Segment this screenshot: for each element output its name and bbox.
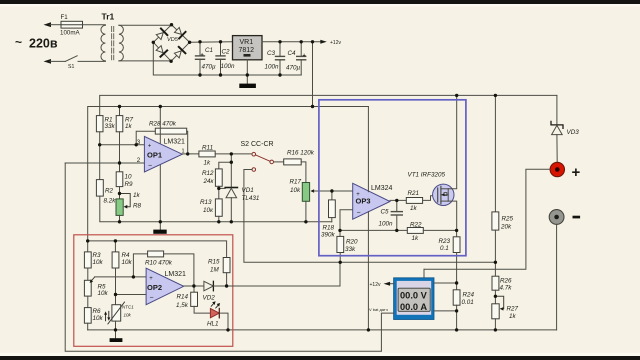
svg-text:C1: C1 (205, 47, 213, 54)
LED HL1 (210, 308, 219, 317)
svg-text:1k: 1k (204, 160, 212, 167)
svg-text:+12v: +12v (330, 40, 341, 46)
resistor R10 (133, 251, 194, 286)
resistor R23 (453, 230, 460, 283)
svg-text:−: − (357, 210, 361, 217)
switch S2 lever (256, 155, 271, 161)
wire bridge left node down to ground rail (153, 42, 301, 75)
svg-text:+: + (572, 164, 581, 181)
resistor R4 (112, 241, 119, 268)
svg-text:R16 120k: R16 120k (287, 150, 315, 157)
svg-text:R13: R13 (200, 199, 212, 206)
svg-text:00.0 V: 00.0 V (400, 291, 428, 301)
resistor R12 (215, 169, 222, 186)
resistor R13 (215, 199, 222, 216)
svg-text:VR1: VR1 (240, 39, 254, 46)
wire S2 common to R16 (274, 161, 284, 163)
wire S2 contact B down and across (244, 170, 496, 263)
svg-text:10k: 10k (122, 259, 133, 266)
wire meter +12v stub (390, 283, 394, 285)
VR1 tab mark (244, 54, 251, 57)
wire R8 bottom to ground rail (119, 215, 121, 221)
svg-text:NTC1: NTC1 (122, 305, 134, 310)
blue group box (319, 100, 466, 256)
svg-text:100n: 100n (379, 221, 394, 228)
terminal minus (549, 210, 564, 225)
capacitor C3 (276, 42, 285, 75)
wire R11 to S2 (215, 153, 252, 155)
resistor R24 (453, 283, 460, 330)
svg-text:R23: R23 (439, 238, 451, 245)
resistor R14 (191, 286, 211, 313)
potentiometer R17 (302, 183, 314, 202)
svg-text:R26: R26 (500, 278, 512, 285)
svg-text:VD3: VD3 (567, 129, 580, 136)
potentiometer R8 (116, 194, 130, 216)
wire R7 bottom to pin2 node and R9 (119, 132, 121, 172)
svg-text:100mA: 100mA (60, 30, 80, 37)
svg-text:V bat датч: V bat датч (369, 307, 388, 312)
svg-text:470µ: 470µ (286, 65, 301, 72)
svg-text:4.7k: 4.7k (500, 285, 513, 292)
svg-text:R11: R11 (202, 145, 213, 152)
diode VD2 (204, 281, 214, 291)
LED arrows HL1 (211, 301, 220, 308)
wire red box top supply row (88, 241, 227, 258)
wire meter right bottom to R24 bottom (434, 310, 457, 312)
svg-text:VD1: VD1 (242, 187, 254, 194)
svg-text:R18: R18 (323, 225, 335, 232)
svg-text:C4: C4 (288, 50, 297, 57)
wire R17 wiper to OP3 plus input (314, 190, 353, 192)
thermistor NTC1 (108, 302, 125, 324)
svg-text:1k: 1k (133, 192, 141, 199)
letterbox bars (0, 0, 640, 4)
svg-text:1,5k: 1,5k (176, 302, 189, 309)
op-amp OP1 LM321 (144, 136, 182, 172)
mains left arrow top (44, 22, 52, 27)
wire OP3 output (390, 199, 406, 201)
wire VR1 ground pin (246, 60, 248, 84)
resistor R25 (492, 95, 499, 276)
wire VD2 to R15 node and mode line (213, 262, 340, 286)
resistor R6 (84, 308, 91, 324)
wire OP1 pin 2 input (65, 162, 144, 164)
wire R12 R13 junction (218, 186, 220, 199)
svg-text:220в: 220в (29, 37, 58, 51)
wire R17 bottom to ground rail (305, 201, 307, 222)
wire secondary bottom to bridge bottom node (119, 60, 171, 62)
svg-text:~: ~ (15, 35, 22, 49)
wire R26 to R27 (494, 290, 496, 304)
svg-text:+: + (303, 53, 306, 59)
svg-text:+: + (148, 144, 152, 150)
wire R4 bottom to minus input node (115, 268, 117, 305)
svg-text:33k: 33k (105, 123, 116, 130)
switch S2 common contact (270, 160, 274, 164)
svg-text:R21: R21 (408, 190, 420, 197)
svg-text:C5: C5 (381, 209, 390, 216)
resistor R28 feedback (136, 128, 188, 154)
svg-text:R17: R17 (290, 179, 302, 186)
resistor R20 (337, 230, 344, 262)
svg-text:R12: R12 (202, 170, 214, 177)
svg-text:R15: R15 (208, 259, 220, 266)
ground symbol below OP1 (153, 230, 166, 234)
resistor R3 (84, 241, 91, 268)
svg-text:390k: 390k (321, 232, 336, 239)
bridge rectifier VD5 diamond (153, 25, 189, 62)
svg-text:0.01: 0.01 (462, 299, 474, 306)
svg-text:+: + (201, 53, 204, 59)
wire TL431 ref (219, 187, 225, 189)
svg-text:TL431: TL431 (242, 195, 260, 202)
wire R3 to R5 (87, 268, 89, 280)
temperature arrows at NTC1 (104, 311, 110, 321)
wire fuse to transformer primary top (83, 24, 106, 26)
wire OP1 output (182, 153, 199, 155)
svg-text:+: + (356, 192, 360, 198)
wire R5 to R6 (87, 296, 89, 308)
svg-text:100n: 100n (221, 63, 236, 70)
wire R22 to source node (423, 229, 456, 231)
svg-text:R9: R9 (125, 181, 134, 188)
svg-text:00.0 A: 00.0 A (400, 302, 427, 312)
resistor R7 (116, 107, 123, 132)
svg-text:R14: R14 (177, 294, 189, 301)
svg-text:−: − (150, 295, 154, 302)
svg-text:VD5: VD5 (167, 37, 179, 43)
svg-text:R2: R2 (105, 188, 114, 195)
wire arrow to fuse F1 (50, 24, 61, 26)
svg-text:7812: 7812 (239, 47, 255, 54)
wire R21 to VT1 gate (423, 196, 438, 201)
wire OP3 power top pin (367, 107, 369, 192)
svg-text:LM324: LM324 (371, 185, 393, 192)
svg-text:R8: R8 (133, 203, 142, 210)
bridge diode bottom-right (173, 47, 185, 59)
ground symbol under VR1 (239, 84, 256, 88)
regulator VR1 7812 (233, 36, 263, 60)
svg-text:1k: 1k (412, 235, 420, 242)
resistor R21 (406, 198, 422, 204)
capacitor C5 (391, 200, 402, 230)
svg-text:R10 470k: R10 470k (145, 260, 173, 267)
bridge diode top-left (155, 29, 167, 41)
svg-text:VD2: VD2 (203, 295, 216, 302)
wire OP3 power bottom pin to bottom line (367, 212, 369, 330)
svg-text:R20: R20 (346, 239, 358, 246)
svg-text:S2 CC-CR: S2 CC-CR (241, 141, 274, 148)
svg-text:33k: 33k (345, 246, 356, 253)
op-amp OP2 LM321 (146, 268, 184, 305)
wire VT1 drain to raw rail (448, 95, 457, 188)
svg-text:10k: 10k (93, 315, 104, 322)
wire +12v drop to opamp rail (312, 42, 314, 107)
svg-text:Tr1: Tr1 (102, 12, 115, 22)
wire OP2 output (184, 285, 204, 287)
wire R1 bottom to pin3 node and R2 (99, 132, 101, 180)
svg-text:1k: 1k (410, 205, 418, 212)
wire +12v opamp rail (horizontal B) (88, 107, 369, 241)
svg-text:C2: C2 (222, 49, 231, 56)
wire output negative bottom line (88, 329, 557, 331)
wire VR1 output rail +12v (262, 41, 321, 43)
svg-text:1: 1 (182, 148, 185, 154)
transistor VT1 IRF3205 (433, 184, 454, 205)
svg-text:C3: C3 (267, 50, 276, 57)
svg-text:10k: 10k (124, 313, 132, 318)
wire bridge right node to VR1 input (190, 41, 233, 44)
capacitor C4 (297, 42, 306, 75)
+12v arrow top (320, 40, 327, 44)
svg-text:10к: 10к (203, 207, 214, 214)
zener VD3 (551, 95, 563, 162)
svg-text:470µ: 470µ (202, 64, 217, 71)
resistor R15 (223, 258, 230, 287)
svg-text:+: + (149, 276, 153, 282)
wire voltage sense meter to plus terminal (424, 169, 550, 277)
wire branch to R12 top (219, 162, 232, 169)
svg-text:OP2: OP2 (147, 283, 162, 292)
wire S1 to transformer primary bottom (78, 60, 105, 62)
resistor R1 (96, 116, 103, 132)
bridge diode bottom-left (155, 45, 167, 57)
wire OP1 power bottom to ground rail (159, 164, 161, 229)
resistor R22 (407, 228, 423, 234)
+12v arrow at meter (384, 282, 391, 286)
svg-text:10k: 10k (98, 290, 109, 297)
wire OP3 minus input (340, 210, 353, 231)
svg-text:LM321: LM321 (165, 271, 187, 278)
wire OP3 feedback node row (340, 229, 407, 231)
capacitor C1 (196, 42, 205, 75)
resistor R9 (116, 172, 123, 187)
red group box (74, 235, 233, 346)
switch S1 (44, 56, 78, 64)
svg-text:−: − (148, 162, 152, 169)
svg-text:R27: R27 (507, 306, 519, 313)
svg-text:LM321: LM321 (164, 139, 186, 146)
resistor R26 (492, 276, 499, 290)
svg-text:OP1: OP1 (147, 151, 162, 160)
potentiometer R5 (84, 277, 94, 296)
terminal plus (550, 162, 564, 176)
wire meter top pin (423, 269, 425, 278)
label minus sign (573, 216, 581, 219)
wire HL1 to bottom line (221, 313, 228, 330)
wire OP2 plus input (95, 276, 146, 278)
svg-text:F1: F1 (61, 14, 69, 21)
wire OP1 pin 3 input (100, 144, 145, 146)
svg-text:10k: 10k (93, 259, 104, 266)
transformer Tr1 core (112, 27, 114, 60)
wire OP2 minus input (116, 294, 147, 296)
svg-text:R28 470k: R28 470k (149, 121, 177, 128)
wire minus terminal down (556, 224, 558, 330)
svg-text:HL1: HL1 (207, 321, 219, 328)
svg-text:+12v: +12v (370, 282, 381, 288)
svg-text:20k: 20k (500, 224, 512, 231)
svg-text:0.1: 0.1 (440, 245, 449, 252)
transformer Tr1 primary winding (101, 25, 105, 61)
resistor R11 (199, 151, 215, 157)
switch S2 contact B (252, 168, 256, 172)
switch S2 contact A (252, 152, 256, 156)
wire R6 bottom corner (87, 323, 89, 330)
meter module M1 (394, 278, 434, 320)
fuse F1 (61, 21, 83, 28)
svg-text:S1: S1 (68, 64, 74, 70)
svg-text:100n: 100n (265, 64, 280, 71)
bridge diode top-right (174, 27, 186, 39)
wire meter right top to R24 (434, 282, 457, 284)
resistor R2 (96, 180, 103, 197)
potentiometer R27 (492, 296, 504, 319)
resistor R16 (284, 159, 302, 165)
wire R13 bottom to ground rail (218, 216, 220, 222)
ground symbol below NTC1 (110, 330, 123, 342)
svg-text:1k: 1k (509, 313, 517, 320)
svg-text:2: 2 (137, 157, 141, 164)
wire OP1 power top (159, 107, 161, 144)
wire R27 bottom to bottom line (494, 319, 496, 330)
svg-text:1k: 1k (125, 123, 133, 130)
svg-text:10: 10 (125, 174, 133, 181)
svg-text:24к: 24к (203, 178, 215, 185)
svg-text:R22: R22 (410, 222, 422, 229)
wire R2 bottom to ground rail corner (100, 196, 332, 222)
svg-text:3: 3 (137, 139, 141, 146)
op-amp OP3 LM324 (353, 183, 390, 219)
svg-text:R24: R24 (463, 292, 475, 299)
wire raw supply rail (top horizontal A) (100, 95, 557, 115)
junction dots (170, 23, 173, 26)
resistor R18 (329, 191, 336, 222)
svg-text:VT1 IRF3205: VT1 IRF3205 (408, 172, 446, 179)
svg-text:1M: 1M (210, 267, 220, 274)
wire VD1 cathode riser (230, 154, 232, 188)
wire R9 to R8 junction (119, 187, 121, 199)
wire secondary top to bridge top node (119, 24, 172, 26)
shunt reference VD1 TL431 (225, 188, 237, 222)
svg-text:R25: R25 (502, 216, 514, 223)
wire NTC1 bottom to bottom line (115, 321, 117, 330)
wire voltage sense line from OP1 pin2 (65, 163, 393, 351)
wire R16 to R17 top (301, 162, 306, 183)
capacitor C2 (216, 42, 225, 75)
wire VT1 source to shunt node (448, 201, 457, 230)
svg-text:8.2k: 8.2k (104, 198, 117, 205)
svg-text:10k: 10k (290, 187, 301, 194)
transformer Tr1 secondary winding (119, 25, 123, 61)
